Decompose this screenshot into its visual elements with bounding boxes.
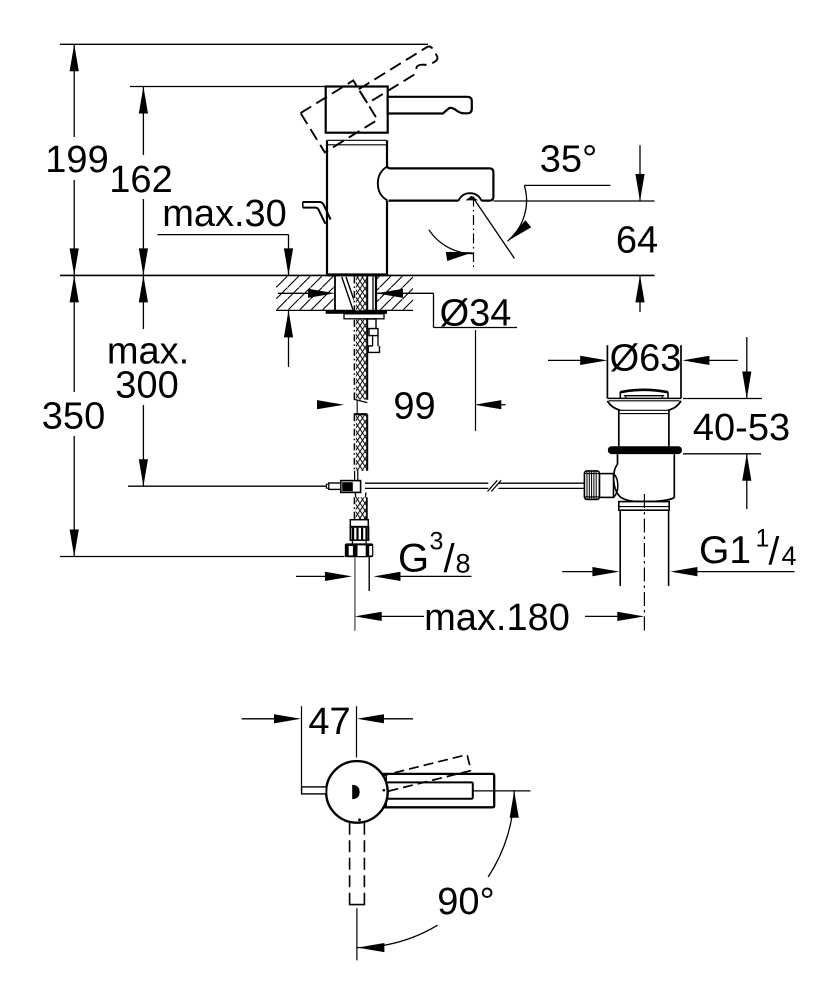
dimension 47 <box>242 718 275 720</box>
shank walls <box>334 276 336 310</box>
flange black bar <box>326 310 387 314</box>
extension line 162 (body height) <box>130 86 326 88</box>
35deg angled ray <box>473 198 515 259</box>
drain centerline <box>643 494 645 632</box>
svg-text:max.180: max.180 <box>424 597 570 639</box>
dimension Ø63 <box>548 359 580 361</box>
90deg arc <box>488 790 514 877</box>
knob socket <box>600 474 614 498</box>
spout centerline dash-dot <box>473 197 475 270</box>
dimension 99 <box>501 404 505 406</box>
svg-text:Ø63: Ø63 <box>610 338 682 380</box>
cartridge D-glyph <box>352 785 359 799</box>
pop-up knob stub (top view) <box>302 787 327 794</box>
svg-text:64: 64 <box>616 220 658 262</box>
outlet dark wedge <box>466 196 479 201</box>
hose segment 3 <box>354 497 366 519</box>
rubber gasket <box>608 446 682 454</box>
handle cap <box>326 87 388 133</box>
dimension line 162/max300 vertical <box>142 87 144 487</box>
joint band lines <box>327 139 386 141</box>
counter hatching left <box>276 276 335 309</box>
tailpipe <box>619 510 621 586</box>
dimension G1 1/4 <box>562 571 592 573</box>
pop-up horizontal rod <box>365 482 488 484</box>
svg-text:90°: 90° <box>437 881 494 923</box>
spout root fillet <box>378 167 387 201</box>
svg-text:47: 47 <box>308 701 350 743</box>
svg-text:4: 4 <box>782 541 797 571</box>
counter hatching right <box>376 276 413 309</box>
G3/8 nut <box>345 543 374 557</box>
99 extension vertical (spout centerline) <box>475 330 477 431</box>
faucet base line on counter <box>326 273 388 276</box>
washer <box>344 314 384 319</box>
rod guide rect A <box>368 319 377 329</box>
dimension 47 extension lines <box>301 706 303 790</box>
svg-text:35°: 35° <box>540 139 597 181</box>
hose segment 1 <box>354 276 368 402</box>
supply pipe below nut <box>354 557 356 631</box>
inner tube lines <box>354 471 356 481</box>
hose segment 2 <box>354 414 367 471</box>
rod guide rect B <box>369 329 378 336</box>
drain flange sides <box>606 345 608 398</box>
detail dots <box>358 818 361 821</box>
svg-text:G1: G1 <box>699 529 751 572</box>
max.30 leader and arrows <box>158 235 289 367</box>
svg-text:/: / <box>444 537 456 581</box>
extension line max300 bottom <box>128 485 329 487</box>
dashed lever rotated (top view) <box>380 755 471 793</box>
dashed handle (raised position) <box>301 36 450 152</box>
svg-text:/: / <box>769 531 780 574</box>
drain neck <box>618 410 620 446</box>
clamp taper <box>355 492 366 497</box>
lever <box>388 97 472 114</box>
svg-text:G: G <box>398 537 429 581</box>
rod verticals <box>372 336 374 346</box>
svg-text:Ø34: Ø34 <box>440 293 512 335</box>
spout bottom line <box>389 200 459 202</box>
svg-text:350: 350 <box>42 396 105 438</box>
dimension max.180 <box>382 615 425 617</box>
ball housing bulge <box>614 465 622 498</box>
spout block <box>387 166 493 200</box>
dimension Ø34 <box>278 293 517 327</box>
lever base chord line <box>385 774 387 807</box>
drain body below gasket <box>617 454 619 464</box>
svg-text:40-53: 40-53 <box>693 407 790 449</box>
pop-up rod knob (side view) <box>303 202 331 220</box>
flange lip lines <box>607 397 681 399</box>
dimension G3/8 <box>296 575 326 577</box>
shank inner diagonals <box>342 277 353 310</box>
neck lines <box>351 540 353 543</box>
dimension line 199/350 vertical <box>73 44 75 556</box>
pop-up plug cap <box>620 390 668 392</box>
svg-text:3: 3 <box>430 528 444 556</box>
rod break marks <box>488 480 498 491</box>
spout outlet hump <box>459 193 482 201</box>
35deg leader line <box>524 184 610 186</box>
hose collar <box>350 520 368 527</box>
dimension 64 vertical <box>493 145 654 312</box>
reference line from spout tip <box>473 790 531 792</box>
slip ring collar <box>619 502 669 511</box>
extension line top (199 handle height) <box>60 43 428 45</box>
drain cone <box>607 401 620 411</box>
body sides <box>326 140 328 275</box>
svg-text:199: 199 <box>45 139 108 181</box>
vertical centerline below stub <box>356 908 358 960</box>
hose gap inner line <box>356 401 358 414</box>
shank inner vertical <box>372 277 374 311</box>
hose knurl band <box>350 527 368 540</box>
rod clamp <box>341 481 361 493</box>
drain body bottom <box>622 498 675 502</box>
clamp left pin <box>329 483 341 489</box>
countertop line <box>60 274 655 276</box>
svg-text:99: 99 <box>393 386 435 428</box>
counter bottom line <box>276 309 413 311</box>
svg-text:300: 300 <box>115 365 178 407</box>
dimension 40-53 <box>683 398 762 400</box>
spout inner rect (top view) <box>386 782 473 798</box>
knurled knob <box>584 471 599 500</box>
rod hook <box>368 346 379 353</box>
extension line 350 bottom <box>60 556 345 558</box>
lever outer (top view) <box>382 774 494 807</box>
dashed swivel spout stub <box>350 823 365 905</box>
svg-text:1: 1 <box>756 525 770 553</box>
svg-text:8: 8 <box>456 548 471 578</box>
35deg dimension arcs <box>508 186 527 242</box>
body circle <box>326 761 388 823</box>
svg-text:max.30: max.30 <box>162 193 287 235</box>
